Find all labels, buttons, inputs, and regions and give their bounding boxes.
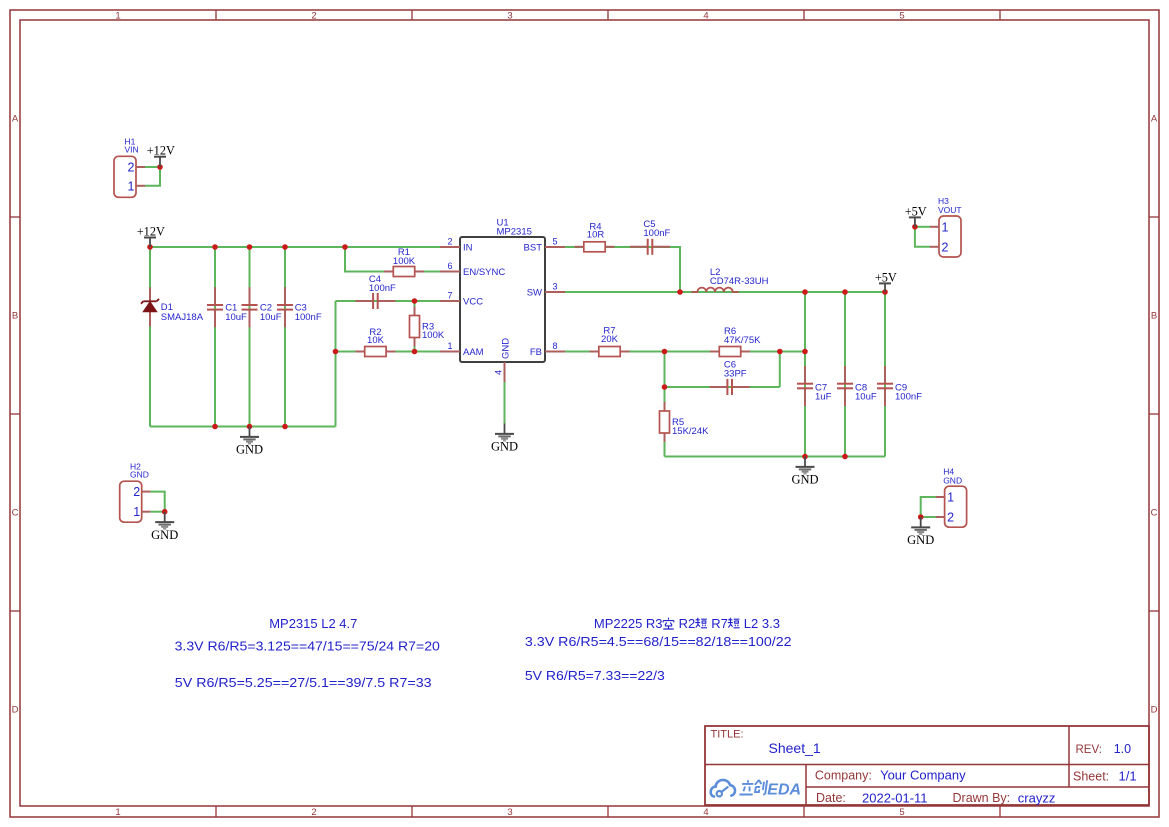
label C7 — [815, 382, 827, 393]
label R7 — [603, 326, 615, 337]
svg-text:5: 5 — [899, 10, 904, 21]
ground GND right rail — [791, 457, 818, 487]
label R3 — [422, 321, 434, 332]
Sheet label — [1073, 769, 1109, 783]
svg-text:GND: GND — [907, 533, 934, 547]
junction C8 top — [842, 289, 848, 295]
value 10uF of C2 — [260, 312, 282, 323]
junction EN branch — [342, 244, 348, 250]
wire U1 GND drop — [504, 380, 506, 424]
junction C1 bottom — [212, 424, 218, 430]
wire H4 pin1 loop — [921, 497, 936, 517]
pin 2 (IN) of U1 — [440, 237, 473, 254]
value 100nF of C5 — [643, 228, 670, 239]
junction +12V flag — [147, 244, 153, 250]
junction R2 left — [333, 349, 339, 355]
svg-text:5V R6/R5=5.25==27/5.1==39/7.5: 5V R6/R5=5.25==27/5.1==39/7.5 R7=33 — [175, 675, 432, 690]
inductor L2 — [691, 288, 739, 292]
svg-text:R7: R7 — [711, 616, 728, 631]
value 10R of R4 — [587, 229, 605, 240]
wire R3 column — [414, 301, 416, 352]
resistor R5 — [660, 402, 670, 442]
junction H3 +5V — [912, 224, 918, 230]
wire C7 column — [804, 292, 806, 457]
value 1uF of C7 — [815, 391, 832, 402]
label L2 — [710, 267, 721, 278]
svg-text:REV:: REV: — [1076, 744, 1102, 756]
pin 3 (SW) of U1 — [527, 282, 565, 299]
wire H4 pin2 — [921, 516, 936, 518]
wire H1 loop — [145, 167, 160, 186]
op-amp U1 MP2315 body — [460, 237, 545, 362]
svg-text:+12V: +12V — [147, 144, 175, 158]
wire H2 pin1 — [151, 511, 165, 513]
label R4 — [589, 222, 601, 233]
value 47K/75K of R6 — [724, 335, 761, 346]
wire SW line — [545, 291, 885, 293]
connector H2 GND — [120, 481, 142, 522]
label C3 — [295, 302, 307, 313]
ground GND at H4 — [907, 517, 934, 547]
svg-text:R2: R2 — [679, 616, 696, 631]
wire C4/R2 riser — [335, 301, 337, 427]
wire VCC line — [336, 300, 441, 302]
value MP2315 of U1 — [497, 227, 532, 238]
LCEDA logo text — [739, 780, 801, 799]
svg-text:10uF: 10uF — [225, 312, 247, 323]
svg-text:MP2315 L2 4.7: MP2315 L2 4.7 — [269, 616, 357, 631]
svg-text:GND: GND — [236, 443, 263, 457]
svg-text:4: 4 — [703, 10, 708, 21]
svg-text:MP2225 R3: MP2225 R3 — [594, 616, 663, 631]
Date value — [862, 790, 928, 805]
svg-text:B: B — [1151, 310, 1157, 321]
label C9 — [895, 382, 907, 393]
svg-text:2: 2 — [128, 161, 135, 175]
Sheet value 1/1 — [1119, 768, 1137, 783]
svg-text:+12V: +12V — [137, 225, 165, 239]
svg-text:FB: FB — [530, 347, 542, 358]
junction C6 right — [777, 349, 783, 355]
junction H2 GND — [162, 509, 168, 515]
svg-text:100nF: 100nF — [895, 391, 922, 402]
ground GND at H2 — [151, 512, 178, 542]
junction SW-BST — [677, 289, 683, 295]
pin 1 (AAM) of U1 — [440, 341, 484, 358]
resistor R6 — [710, 347, 750, 357]
junction C2 top — [247, 244, 253, 250]
resistor R1 — [384, 267, 424, 277]
wire C2 column — [249, 247, 251, 427]
wire C1 column — [214, 247, 216, 427]
wire D1 column — [149, 247, 151, 427]
svg-text:1: 1 — [133, 505, 140, 519]
svg-text:1: 1 — [115, 807, 120, 818]
wire H3 pin1 to +5V — [915, 226, 930, 228]
svg-text:1: 1 — [128, 179, 135, 193]
junction C7 top — [802, 289, 808, 295]
wire H1 pin2 to +12V — [145, 166, 160, 168]
svg-text:Your Company: Your Company — [880, 768, 966, 783]
wire C8 column — [844, 292, 846, 457]
junction C3 top — [282, 244, 288, 250]
title block TITLE label — [711, 728, 744, 740]
svg-text:20K: 20K — [601, 334, 619, 345]
value 15K/24K of R5 — [672, 426, 709, 437]
junction H4 GND — [918, 514, 924, 520]
label H3 — [938, 196, 949, 206]
svg-text:A: A — [12, 113, 19, 124]
svg-text:3.3V R6/R5=4.5==68/15==82/18==: 3.3V R6/R5=4.5==68/15==82/18==100/22 — [525, 634, 792, 649]
wire AAM line — [336, 351, 441, 353]
svg-text:TITLE:: TITLE: — [711, 728, 744, 740]
value 10K of R2 — [367, 335, 385, 346]
pin 5 (BST) of U1 — [524, 237, 565, 254]
svg-text:VIN: VIN — [125, 145, 139, 155]
svg-text:47K/75K: 47K/75K — [724, 335, 761, 346]
Company label — [815, 769, 872, 783]
svg-text:AAM: AAM — [463, 347, 484, 358]
svg-text:2: 2 — [447, 237, 452, 247]
label H1 — [125, 136, 136, 146]
value 100nF of C9 — [895, 391, 922, 402]
pin 8 (FB) of U1 — [530, 341, 565, 358]
svg-text:B: B — [12, 310, 18, 321]
wire GND bottom-right rail — [665, 456, 886, 458]
label C4 — [369, 274, 381, 285]
value 100K of R1 — [393, 256, 416, 267]
svg-text:BST: BST — [524, 242, 543, 253]
note MP2315 5V line — [175, 675, 432, 690]
diode D1 (TVS) — [141, 288, 159, 327]
value 20K of R7 — [601, 334, 619, 345]
label C6 — [724, 360, 736, 371]
pin 1 of H2 — [133, 505, 150, 519]
svg-text:6: 6 — [447, 261, 452, 271]
svg-text:3: 3 — [507, 10, 512, 21]
junction C6 left — [662, 384, 668, 390]
svg-text:Date:: Date: — [816, 791, 846, 805]
svg-text:EDA: EDA — [767, 782, 801, 799]
svg-text:100nF: 100nF — [369, 283, 396, 294]
junction H1 +12V — [157, 164, 163, 170]
resistor R7 — [590, 347, 630, 357]
svg-text:1: 1 — [947, 491, 954, 505]
title block frame — [705, 726, 1149, 805]
note MP2315 3.3V line — [175, 639, 440, 654]
label C5 — [643, 219, 655, 230]
svg-text:3: 3 — [552, 282, 557, 292]
capacitor C6 — [710, 379, 750, 395]
pin 2 of H2 — [133, 485, 150, 499]
junction FB-VOUT — [802, 349, 808, 355]
note MP2315 heading — [269, 616, 357, 631]
pin 2 of H4 — [936, 511, 955, 525]
svg-text:2: 2 — [947, 511, 954, 525]
REV value 1.0 — [1114, 742, 1131, 756]
resistor R4 — [575, 242, 615, 252]
junction +5V flag — [882, 289, 888, 295]
value 100nF of C4 — [369, 283, 396, 294]
Company value — [880, 768, 966, 783]
column labels — [115, 10, 904, 818]
label R6 — [724, 326, 736, 337]
wire H3 loop — [915, 227, 930, 247]
svg-text:D: D — [12, 704, 19, 715]
pin 2 of H3 — [930, 240, 949, 254]
pin 1 of H1 — [128, 179, 145, 193]
wire FB line — [545, 351, 805, 353]
svg-text:2: 2 — [311, 807, 316, 818]
label U1 — [497, 218, 509, 229]
junction C8 bottom — [842, 454, 848, 460]
svg-text:2: 2 — [311, 10, 316, 21]
REV label — [1076, 744, 1102, 756]
junction C2 bottom — [247, 424, 253, 430]
svg-text:100nF: 100nF — [643, 228, 670, 239]
svg-text:5: 5 — [899, 807, 904, 818]
svg-text:C: C — [1151, 507, 1158, 518]
svg-text:2022-01-11: 2022-01-11 — [862, 790, 928, 805]
capacitor C3 — [277, 287, 293, 327]
sheet title Sheet_1 — [769, 740, 821, 756]
power flag +12V at H1 — [147, 144, 175, 167]
svg-text:4: 4 — [703, 807, 708, 818]
junction FB-R6 left — [662, 349, 668, 355]
svg-text:10uF: 10uF — [855, 391, 877, 402]
net name GND of H2 — [130, 470, 149, 480]
svg-text:GND: GND — [491, 440, 518, 454]
column ticks — [216, 10, 1000, 817]
value 100nF of C3 — [295, 312, 322, 323]
pin 7 (VCC) of U1 — [440, 291, 483, 308]
wire BST line — [545, 247, 680, 292]
svg-text:100nF: 100nF — [295, 312, 322, 323]
capacitor C2 — [242, 287, 258, 327]
svg-text:10K: 10K — [367, 335, 385, 346]
power flag +5V rail — [875, 270, 897, 292]
svg-text:C: C — [12, 507, 19, 518]
svg-text:15K/24K: 15K/24K — [672, 426, 709, 437]
pin 1 of H3 — [930, 220, 949, 234]
resistor R2 — [355, 347, 395, 357]
label C1 — [225, 302, 237, 313]
capacitor C8 — [837, 366, 853, 406]
wire C6 riser — [779, 352, 781, 388]
svg-text:5V R6/R5=7.33==22/3: 5V R6/R5=7.33==22/3 — [525, 668, 665, 683]
capacitor C1 — [207, 287, 223, 327]
note MP2225 5V line — [525, 668, 665, 683]
wire GND bottom-left rail — [150, 426, 336, 428]
capacitor C4 — [355, 293, 395, 309]
pin 1 of H4 — [936, 491, 955, 505]
net name VOUT of H3 — [938, 205, 962, 215]
junction C3 bottom — [282, 424, 288, 430]
wire H2 pin2 loop — [151, 492, 165, 512]
svg-text:D: D — [1151, 704, 1158, 715]
power flag +12V rail — [137, 225, 165, 248]
wire C9 column — [884, 292, 886, 457]
junction C7 bottom — [802, 454, 808, 460]
svg-text:1: 1 — [942, 220, 949, 234]
label H4 — [943, 467, 954, 477]
capacitor C5 — [630, 239, 670, 255]
wire C6 line — [665, 386, 780, 388]
svg-text:1: 1 — [447, 341, 452, 351]
svg-text:3.3V R6/R5=3.125==47/15==75/24: 3.3V R6/R5=3.125==47/15==75/24 R7=20 — [175, 639, 440, 654]
label R2 — [369, 327, 381, 338]
svg-text:SW: SW — [527, 287, 542, 298]
svg-text:5: 5 — [552, 237, 557, 247]
value 10uF of C1 — [225, 312, 247, 323]
LCEDA logo cloud — [711, 780, 735, 797]
value CD74R-33UH of L2 — [710, 276, 769, 287]
svg-text:1/1: 1/1 — [1119, 768, 1137, 783]
label R5 — [672, 417, 684, 428]
ground GND under C2 rail — [236, 427, 263, 457]
value SMAJ18A of D1 — [161, 312, 204, 323]
net name VIN of H1 — [125, 145, 139, 155]
Date label — [816, 791, 846, 805]
wire C3 column — [284, 247, 286, 427]
svg-text:MP2315: MP2315 — [497, 227, 532, 238]
junction R3 bottom — [412, 349, 418, 355]
svg-text:7: 7 — [447, 291, 452, 301]
svg-text:2: 2 — [942, 240, 949, 254]
svg-text:VCC: VCC — [463, 296, 483, 307]
svg-text:Sheet:: Sheet: — [1073, 769, 1109, 783]
svg-text:CD74R-33UH: CD74R-33UH — [710, 276, 769, 287]
label C2 — [260, 302, 272, 313]
junction C1 top — [212, 244, 218, 250]
pin 2 of H1 — [128, 161, 145, 175]
wire +12V top rail — [150, 246, 440, 248]
svg-text:crayzz: crayzz — [1018, 790, 1056, 805]
svg-text:Company:: Company: — [815, 769, 872, 783]
svg-text:VOUT: VOUT — [938, 205, 962, 215]
svg-text:SMAJ18A: SMAJ18A — [161, 312, 204, 323]
value 10uF of C8 — [855, 391, 877, 402]
svg-text:100K: 100K — [422, 330, 445, 341]
svg-text:10R: 10R — [587, 229, 605, 240]
label R1 — [398, 247, 410, 258]
svg-text:GND: GND — [501, 338, 512, 359]
wire C6 branch — [664, 352, 666, 457]
svg-text:GND: GND — [791, 473, 818, 487]
pin 6 (EN/SYNC) of U1 — [440, 261, 505, 278]
svg-text:4: 4 — [494, 370, 504, 375]
pin 4 (GND) of U1 — [494, 338, 512, 382]
row labels — [12, 113, 1158, 715]
label C8 — [855, 382, 867, 393]
Drawn By value crayzz — [1018, 790, 1056, 805]
connector H1 VIN — [114, 156, 136, 197]
svg-text:33PF: 33PF — [724, 369, 747, 380]
svg-text:2: 2 — [133, 485, 140, 499]
wire EN branch — [345, 247, 440, 272]
note MP2225 3.3V line — [525, 634, 792, 649]
svg-text:100K: 100K — [393, 256, 416, 267]
net name GND of H4 — [943, 476, 962, 486]
svg-text:EN/SYNC: EN/SYNC — [463, 267, 505, 278]
svg-text:3: 3 — [507, 807, 512, 818]
svg-text:GND: GND — [151, 528, 178, 542]
svg-text:GND: GND — [943, 476, 962, 486]
svg-text:Sheet_1: Sheet_1 — [769, 740, 821, 756]
connector H4 GND — [945, 486, 967, 527]
svg-text:+5V: +5V — [905, 204, 927, 218]
svg-text:IN: IN — [463, 242, 473, 253]
svg-text:1.0: 1.0 — [1114, 742, 1131, 756]
capacitor C7 — [797, 366, 813, 406]
value 33PF of C6 — [724, 369, 747, 380]
resistor R3 — [410, 307, 420, 347]
svg-text:+5V: +5V — [875, 270, 897, 284]
note MP2225 heading — [594, 616, 780, 631]
label H2 — [130, 462, 141, 472]
row ticks — [10, 217, 1159, 611]
svg-text:10uF: 10uF — [260, 312, 282, 323]
svg-text:1: 1 — [115, 10, 120, 21]
svg-text:L2 3.3: L2 3.3 — [744, 616, 780, 631]
junction R3 top — [412, 298, 418, 304]
svg-text:A: A — [1151, 113, 1158, 124]
value 100K of R3 — [422, 330, 445, 341]
Drawn By label — [953, 791, 1011, 805]
svg-text:GND: GND — [130, 470, 149, 480]
capacitor C9 — [877, 366, 893, 406]
svg-text:1uF: 1uF — [815, 391, 832, 402]
label D1 — [161, 302, 173, 313]
connector H3 VOUT — [939, 216, 961, 257]
ground GND under U1 — [491, 424, 518, 454]
svg-text:8: 8 — [552, 341, 557, 351]
power flag +5V at H3 — [905, 204, 927, 226]
svg-text:Drawn By:: Drawn By: — [953, 791, 1011, 805]
